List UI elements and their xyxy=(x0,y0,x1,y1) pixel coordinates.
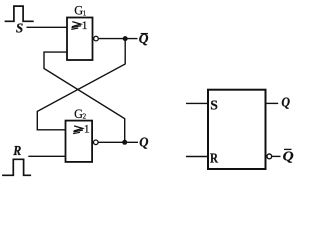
G1 output inversion bubble xyxy=(94,36,99,41)
feedback wire Qbar to G2 input 1 xyxy=(37,39,125,130)
svg-text:Q: Q xyxy=(139,135,149,150)
svg-text:Q: Q xyxy=(281,95,290,110)
wire G2 output to Q label xyxy=(99,141,139,143)
SR latch block symbol xyxy=(208,90,266,169)
svg-text:R: R xyxy=(12,143,21,158)
input pulse symbol at R xyxy=(2,159,31,175)
svg-text:1: 1 xyxy=(84,124,90,136)
input pulse symbol at S xyxy=(5,6,34,21)
wire S input to block xyxy=(186,102,208,104)
svg-text:1: 1 xyxy=(82,20,88,32)
gate G1 function symbol >=1 xyxy=(71,22,81,30)
block Qbar inversion bubble xyxy=(267,154,272,159)
G2 output inversion bubble xyxy=(94,140,99,145)
wire R to G2 input 2 xyxy=(28,155,65,157)
junction node Q xyxy=(122,140,127,145)
svg-text:S: S xyxy=(16,20,23,35)
svg-text:Q: Q xyxy=(283,149,294,164)
svg-text:R: R xyxy=(210,152,219,167)
wire S to G1 input 1 xyxy=(27,26,68,28)
wire G1 output to Qbar label xyxy=(99,38,138,40)
gate G2 function symbol >=1 xyxy=(73,126,83,134)
junction node Qbar xyxy=(123,36,128,41)
wire R input to block xyxy=(186,156,208,158)
wire block Qbar output xyxy=(272,155,280,157)
svg-text:S: S xyxy=(210,99,218,114)
NOR gate G2 box xyxy=(66,121,93,162)
feedback wire Q to G1 input 2 xyxy=(44,52,125,142)
NOR gate G1 box xyxy=(67,18,93,61)
wire block Q output xyxy=(266,102,279,104)
